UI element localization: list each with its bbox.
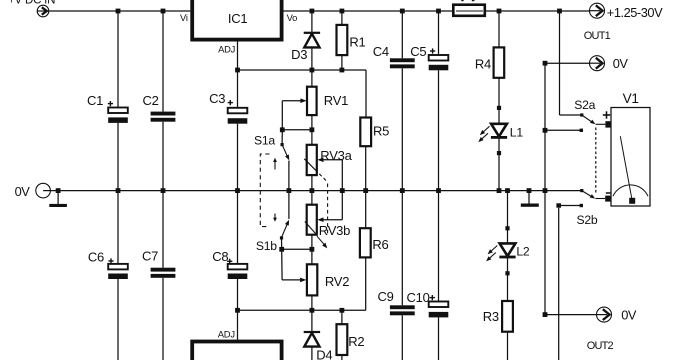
svg-text:R3: R3	[483, 309, 499, 324]
svg-text:C5: C5	[410, 44, 426, 59]
svg-text:RV3b: RV3b	[319, 223, 350, 238]
svg-text:ADJ: ADJ	[218, 328, 235, 339]
svg-text:C10: C10	[407, 290, 430, 305]
svg-text:+V DC IN: +V DC IN	[8, 0, 55, 6]
svg-text:C9: C9	[378, 289, 394, 304]
svg-text:Vi: Vi	[180, 12, 188, 23]
svg-text:OUT2: OUT2	[587, 340, 614, 352]
svg-text:R2: R2	[348, 334, 364, 349]
svg-text:C8: C8	[212, 249, 228, 264]
svg-text:R6: R6	[372, 237, 388, 252]
svg-text:C3: C3	[209, 91, 225, 106]
svg-text:C1: C1	[87, 93, 103, 108]
svg-text:S2b: S2b	[577, 213, 598, 227]
svg-text:S1b: S1b	[256, 239, 277, 253]
svg-text:IC1: IC1	[228, 11, 248, 26]
svg-text:R1: R1	[349, 34, 365, 49]
svg-text:RV2: RV2	[325, 274, 349, 289]
svg-text:S1a: S1a	[254, 134, 275, 148]
svg-text:C2: C2	[143, 93, 159, 108]
svg-text:D3: D3	[291, 47, 307, 62]
svg-text:0V: 0V	[613, 56, 629, 71]
svg-text:0V: 0V	[15, 184, 31, 199]
svg-text:RV1: RV1	[324, 93, 348, 108]
svg-text:C4: C4	[373, 44, 389, 59]
svg-text:R5: R5	[373, 123, 389, 138]
svg-text:D4: D4	[316, 347, 332, 360]
svg-text:V1: V1	[623, 91, 639, 106]
svg-text:C7: C7	[142, 248, 158, 263]
svg-text:OUT1: OUT1	[584, 30, 611, 42]
svg-text:Vo: Vo	[287, 12, 297, 23]
svg-text:C6: C6	[88, 250, 104, 265]
svg-text:+1.25-30V: +1.25-30V	[607, 5, 663, 20]
svg-text:R4: R4	[475, 56, 491, 71]
svg-text:ADJ: ADJ	[218, 44, 235, 55]
svg-text:RV3a: RV3a	[320, 148, 352, 163]
svg-text:S2a: S2a	[574, 98, 595, 112]
svg-text:L1: L1	[510, 126, 524, 140]
svg-text:0V: 0V	[621, 307, 637, 322]
svg-text:L2: L2	[516, 245, 530, 259]
